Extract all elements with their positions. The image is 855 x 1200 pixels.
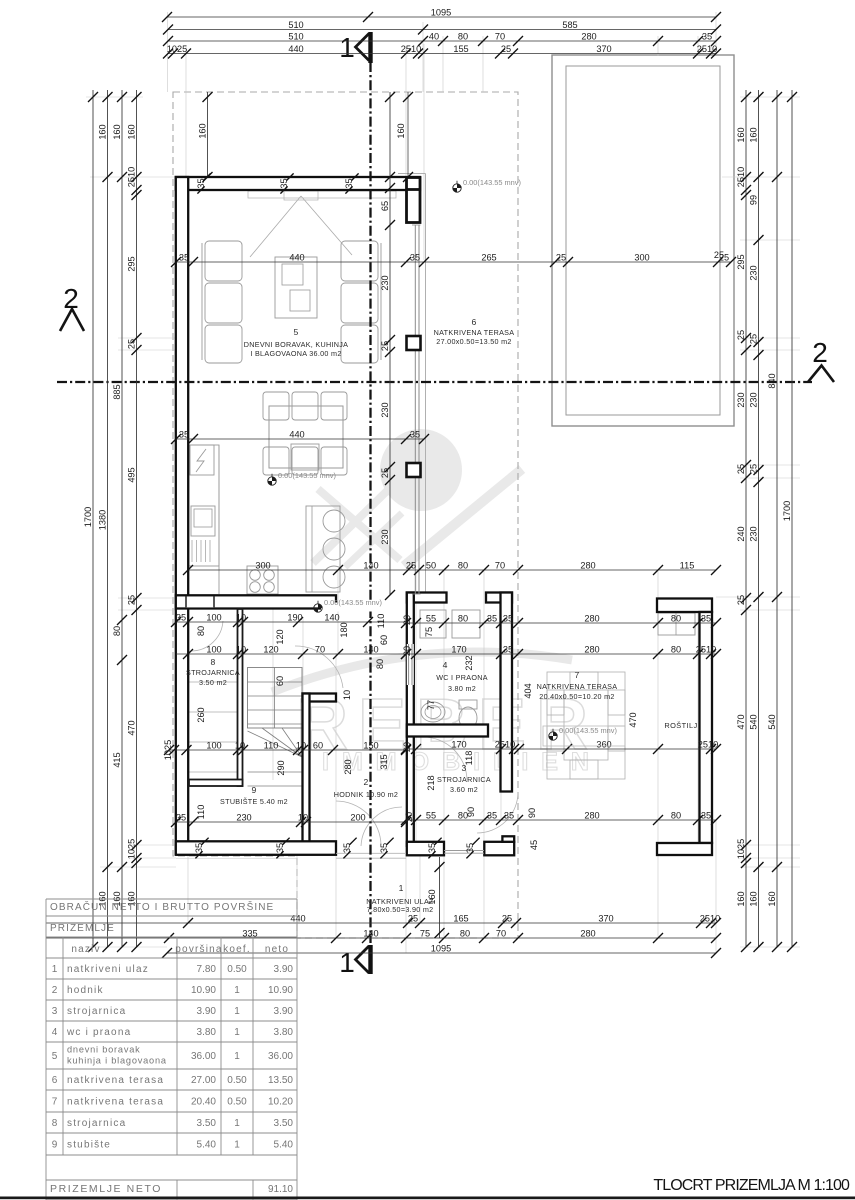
svg-text:36.00: 36.00 <box>191 1051 216 1062</box>
svg-text:77: 77 <box>426 700 436 710</box>
svg-text:80: 80 <box>458 561 468 571</box>
svg-text:3.50: 3.50 <box>274 1118 294 1129</box>
svg-text:230: 230 <box>748 392 758 407</box>
svg-text:190: 190 <box>287 613 302 623</box>
svg-text:OBRAČUN NETTO I BRUTTO POVRŠIN: OBRAČUN NETTO I BRUTTO POVRŠINE <box>50 900 274 913</box>
svg-text:90: 90 <box>527 808 537 818</box>
svg-text:27.00x0.50=13.50 m2: 27.00x0.50=13.50 m2 <box>436 337 511 346</box>
svg-text:80: 80 <box>196 626 206 636</box>
svg-text:35: 35 <box>702 32 712 42</box>
svg-text:7: 7 <box>52 1097 58 1108</box>
svg-text:35: 35 <box>179 253 189 263</box>
svg-text:35: 35 <box>503 645 513 655</box>
svg-text:55: 55 <box>426 811 436 821</box>
svg-text:110: 110 <box>264 741 279 751</box>
svg-text:1700: 1700 <box>83 507 93 527</box>
svg-text:25: 25 <box>408 914 418 924</box>
svg-text:DNEVNI BORAVAK, KUHINJA: DNEVNI BORAVAK, KUHINJA <box>244 340 348 349</box>
svg-text:25: 25 <box>380 341 390 351</box>
svg-text:370: 370 <box>598 914 613 924</box>
svg-text:1025: 1025 <box>167 44 187 54</box>
svg-text:200: 200 <box>350 813 365 823</box>
svg-text:440: 440 <box>288 44 303 54</box>
svg-text:hodnik: hodnik <box>67 985 104 996</box>
svg-text:160: 160 <box>736 127 746 142</box>
svg-text:4: 4 <box>443 660 448 670</box>
svg-text:3.80: 3.80 <box>274 1027 294 1038</box>
svg-text:370: 370 <box>596 44 611 54</box>
svg-text:120: 120 <box>263 645 278 655</box>
svg-text:160: 160 <box>126 124 136 139</box>
svg-text:280: 280 <box>581 32 596 42</box>
svg-text:25: 25 <box>126 339 136 349</box>
svg-text:3.90: 3.90 <box>274 964 294 975</box>
svg-text:dnevni boravak: dnevni boravak <box>67 1045 141 1055</box>
svg-text:2: 2 <box>52 985 58 996</box>
svg-text:10: 10 <box>296 741 306 751</box>
svg-text:230: 230 <box>736 392 746 407</box>
svg-text:280: 280 <box>580 561 595 571</box>
svg-text:1095: 1095 <box>431 944 451 954</box>
svg-text:80: 80 <box>375 659 385 669</box>
svg-text:280: 280 <box>584 614 599 624</box>
svg-text:110: 110 <box>196 805 206 820</box>
svg-text:0.50: 0.50 <box>227 1097 247 1108</box>
svg-text:415: 415 <box>112 752 122 767</box>
svg-text:natkrivena terasa: natkrivena terasa <box>67 1075 164 1086</box>
svg-text:3.80: 3.80 <box>197 1027 217 1038</box>
svg-text:35: 35 <box>487 811 497 821</box>
svg-text:120: 120 <box>275 629 285 644</box>
svg-text:290: 290 <box>276 760 286 775</box>
svg-text:6: 6 <box>52 1075 58 1086</box>
svg-text:strojarnica: strojarnica <box>67 1006 126 1017</box>
svg-text:230: 230 <box>748 526 758 541</box>
svg-text:45: 45 <box>529 840 539 850</box>
svg-text:naziv: naziv <box>71 944 100 955</box>
svg-text:1: 1 <box>399 883 404 893</box>
svg-text:površina: površina <box>175 944 222 955</box>
svg-text:404: 404 <box>523 683 533 698</box>
svg-text:91.10: 91.10 <box>268 1184 293 1195</box>
svg-text:585: 585 <box>562 20 577 30</box>
svg-text:1025: 1025 <box>126 839 136 859</box>
svg-text:80: 80 <box>671 614 681 624</box>
svg-text:840: 840 <box>767 373 777 388</box>
svg-text:90: 90 <box>466 807 476 817</box>
svg-text:25: 25 <box>748 464 758 474</box>
svg-text:35: 35 <box>487 614 497 624</box>
svg-text:170: 170 <box>451 740 466 750</box>
svg-text:80: 80 <box>112 626 122 636</box>
svg-text:55: 55 <box>426 614 436 624</box>
svg-text:80: 80 <box>460 929 470 939</box>
svg-text:25: 25 <box>406 561 416 571</box>
svg-text:koef.: koef. <box>223 944 251 955</box>
svg-text:0.50: 0.50 <box>227 1075 247 1086</box>
svg-text:295: 295 <box>126 256 136 271</box>
svg-text:NATKRIVENA TERASA: NATKRIVENA TERASA <box>537 682 618 691</box>
svg-text:20.40: 20.40 <box>191 1097 216 1108</box>
svg-text:260: 260 <box>196 707 206 722</box>
svg-text:1380: 1380 <box>97 510 107 530</box>
svg-text:20.40x0.50=10.20 m2: 20.40x0.50=10.20 m2 <box>539 692 614 701</box>
svg-text:218: 218 <box>426 775 436 790</box>
svg-text:75: 75 <box>424 627 434 637</box>
svg-text:280: 280 <box>584 645 599 655</box>
svg-text:1700: 1700 <box>782 501 792 521</box>
svg-text:25: 25 <box>380 468 390 478</box>
svg-text:STUBIŠTE 5.40 m2: STUBIŠTE 5.40 m2 <box>220 797 288 806</box>
svg-text:100: 100 <box>206 645 221 655</box>
svg-text:115: 115 <box>680 561 695 571</box>
svg-text:25: 25 <box>714 250 724 260</box>
svg-text:3.80 m2: 3.80 m2 <box>448 684 476 693</box>
svg-text:1095: 1095 <box>431 8 451 18</box>
svg-text:232: 232 <box>464 655 474 670</box>
svg-text:36.00: 36.00 <box>268 1051 293 1062</box>
svg-text:155: 155 <box>453 44 468 54</box>
svg-text:TLOCRT PRIZEMLJA M 1:100: TLOCRT PRIZEMLJA M 1:100 <box>653 1177 850 1194</box>
svg-text:10.90: 10.90 <box>191 985 216 996</box>
svg-text:3.60 m2: 3.60 m2 <box>450 785 478 794</box>
svg-text:35: 35 <box>701 811 711 821</box>
svg-text:35: 35 <box>176 613 186 623</box>
svg-text:540: 540 <box>748 714 758 729</box>
svg-text:70: 70 <box>496 929 506 939</box>
svg-text:440: 440 <box>289 430 304 440</box>
svg-text:160: 160 <box>748 891 758 906</box>
svg-text:280: 280 <box>580 929 595 939</box>
svg-text:2510: 2510 <box>126 167 136 187</box>
svg-text:300: 300 <box>634 253 649 263</box>
svg-text:470: 470 <box>628 712 638 727</box>
svg-text:25: 25 <box>736 464 746 474</box>
svg-text:80: 80 <box>671 811 681 821</box>
svg-text:3.90: 3.90 <box>197 1006 217 1017</box>
svg-text:170: 170 <box>451 645 466 655</box>
svg-text:3.50: 3.50 <box>197 1118 217 1129</box>
svg-text:315: 315 <box>379 754 389 769</box>
svg-text:35: 35 <box>504 811 514 821</box>
svg-text:27.00: 27.00 <box>191 1075 216 1086</box>
svg-text:99: 99 <box>748 195 758 205</box>
svg-text:PRIZEMLJE: PRIZEMLJE <box>50 923 115 934</box>
svg-text:150: 150 <box>363 741 378 751</box>
svg-text:160: 160 <box>97 124 107 139</box>
svg-text:0.50: 0.50 <box>227 964 247 975</box>
svg-text:540: 540 <box>767 714 777 729</box>
svg-text:60: 60 <box>379 635 389 645</box>
svg-text:10: 10 <box>236 613 246 623</box>
svg-text:240: 240 <box>736 526 746 541</box>
svg-text:440: 440 <box>289 253 304 263</box>
svg-text:25: 25 <box>126 595 136 605</box>
svg-text:stubište: stubište <box>67 1140 111 1151</box>
svg-text:140: 140 <box>363 561 378 571</box>
svg-text:180: 180 <box>339 622 349 637</box>
svg-text:STROJARNICA: STROJARNICA <box>186 668 240 677</box>
svg-text:35: 35 <box>176 813 186 823</box>
svg-text:1: 1 <box>234 985 240 996</box>
svg-text:165: 165 <box>453 914 468 924</box>
svg-text:0.00(143.55 mnv): 0.00(143.55 mnv) <box>559 726 617 735</box>
svg-text:2510: 2510 <box>696 645 716 655</box>
svg-text:160: 160 <box>736 891 746 906</box>
svg-text:160: 160 <box>396 123 406 138</box>
svg-text:70: 70 <box>495 561 505 571</box>
svg-text:80: 80 <box>671 645 681 655</box>
svg-text:35: 35 <box>410 253 420 263</box>
svg-text:510: 510 <box>288 20 303 30</box>
svg-text:3: 3 <box>52 1006 58 1017</box>
svg-text:35: 35 <box>701 614 711 624</box>
svg-text:280: 280 <box>343 759 353 774</box>
svg-text:10: 10 <box>342 690 352 700</box>
svg-text:wc i praona: wc i praona <box>66 1027 131 1038</box>
svg-text:60: 60 <box>313 741 323 751</box>
svg-text:60: 60 <box>275 676 285 686</box>
svg-text:4: 4 <box>52 1027 58 1038</box>
svg-text:75: 75 <box>420 929 430 939</box>
svg-text:160: 160 <box>197 123 207 138</box>
svg-text:1: 1 <box>234 1118 240 1129</box>
svg-text:20: 20 <box>404 812 414 822</box>
svg-text:1025: 1025 <box>163 740 173 760</box>
svg-text:3.50 m2: 3.50 m2 <box>199 678 227 687</box>
svg-text:kuhinja i blagovaona: kuhinja i blagovaona <box>67 1056 167 1066</box>
svg-text:natkriveni ulaz: natkriveni ulaz <box>67 964 149 975</box>
svg-text:295: 295 <box>736 254 746 269</box>
svg-text:2: 2 <box>812 337 828 368</box>
svg-text:7: 7 <box>574 670 579 680</box>
svg-text:265: 265 <box>481 253 496 263</box>
svg-text:2510: 2510 <box>736 167 746 187</box>
svg-text:140: 140 <box>324 613 339 623</box>
svg-text:10.20: 10.20 <box>268 1097 293 1108</box>
svg-text:230: 230 <box>380 275 390 290</box>
svg-text:9: 9 <box>251 785 256 795</box>
svg-text:510: 510 <box>288 32 303 42</box>
svg-text:1: 1 <box>339 947 355 978</box>
svg-text:300: 300 <box>255 561 270 571</box>
svg-text:50: 50 <box>426 561 436 571</box>
svg-text:10: 10 <box>236 645 246 655</box>
svg-text:I BLAGOVAONA 36.00 m2: I BLAGOVAONA 36.00 m2 <box>250 349 341 358</box>
svg-text:230: 230 <box>236 813 251 823</box>
svg-text:5: 5 <box>52 1051 58 1062</box>
svg-text:10.90: 10.90 <box>268 985 293 996</box>
svg-text:80: 80 <box>458 614 468 624</box>
svg-text:10: 10 <box>235 741 245 751</box>
svg-text:2510: 2510 <box>697 44 717 54</box>
svg-text:1: 1 <box>52 964 58 975</box>
svg-text:2510: 2510 <box>700 914 720 924</box>
svg-text:360: 360 <box>596 740 611 750</box>
svg-text:160: 160 <box>112 124 122 139</box>
svg-text:natkrivena terasa: natkrivena terasa <box>67 1097 164 1108</box>
svg-text:STROJARNICA: STROJARNICA <box>437 775 491 784</box>
svg-text:20: 20 <box>402 646 412 656</box>
svg-text:160: 160 <box>767 891 777 906</box>
svg-text:8: 8 <box>210 657 215 667</box>
svg-text:470: 470 <box>736 714 746 729</box>
svg-text:5: 5 <box>293 327 298 337</box>
svg-text:65: 65 <box>380 201 390 211</box>
svg-text:NATKRIVENA TERASA: NATKRIVENA TERASA <box>434 328 515 337</box>
svg-text:strojarnica: strojarnica <box>67 1118 126 1129</box>
svg-text:35: 35 <box>179 430 189 440</box>
svg-text:40: 40 <box>429 32 439 42</box>
svg-text:5.40: 5.40 <box>197 1140 217 1151</box>
svg-text:6: 6 <box>471 317 476 327</box>
svg-text:440: 440 <box>290 914 305 924</box>
svg-text:0.00(143.55 mnv): 0.00(143.55 mnv) <box>324 598 382 607</box>
svg-text:1: 1 <box>234 1051 240 1062</box>
svg-text:230: 230 <box>380 529 390 544</box>
svg-text:470: 470 <box>126 720 136 735</box>
svg-text:2510: 2510 <box>401 44 421 54</box>
svg-text:25: 25 <box>556 253 566 263</box>
svg-text:1025: 1025 <box>736 839 746 859</box>
svg-text:230: 230 <box>748 265 758 280</box>
svg-text:HODNIK 10.90 m2: HODNIK 10.90 m2 <box>334 790 398 799</box>
svg-text:140: 140 <box>363 929 378 939</box>
svg-text:280: 280 <box>584 811 599 821</box>
svg-text:35: 35 <box>410 430 420 440</box>
svg-text:20: 20 <box>402 615 412 625</box>
svg-text:25: 25 <box>502 914 512 924</box>
svg-text:7.80: 7.80 <box>197 964 217 975</box>
svg-text:3.90: 3.90 <box>274 1006 294 1017</box>
svg-text:7.80x0.50=3.90 m2: 7.80x0.50=3.90 m2 <box>367 905 434 914</box>
svg-text:1: 1 <box>339 32 355 63</box>
svg-text:1: 1 <box>234 1006 240 1017</box>
svg-text:neto: neto <box>265 944 289 955</box>
svg-text:70: 70 <box>315 645 325 655</box>
svg-text:25: 25 <box>501 44 511 54</box>
svg-text:ROŠTILJ: ROŠTILJ <box>664 721 697 730</box>
svg-text:10: 10 <box>298 813 308 823</box>
svg-text:WC I PRAONA: WC I PRAONA <box>436 673 488 682</box>
svg-text:230: 230 <box>380 402 390 417</box>
svg-text:35: 35 <box>503 614 513 624</box>
svg-text:1: 1 <box>234 1140 240 1151</box>
svg-text:2510: 2510 <box>495 740 515 750</box>
svg-text:3: 3 <box>461 763 466 773</box>
svg-text:25: 25 <box>748 334 758 344</box>
svg-text:2510: 2510 <box>698 740 718 750</box>
svg-text:0.00(143.55 mnv): 0.00(143.55 mnv) <box>463 178 521 187</box>
svg-text:25: 25 <box>736 595 746 605</box>
svg-text:70: 70 <box>495 32 505 42</box>
svg-text:0.00(143.55 mnv): 0.00(143.55 mnv) <box>278 471 336 480</box>
svg-text:140: 140 <box>363 645 378 655</box>
svg-text:25: 25 <box>736 330 746 340</box>
svg-text:2: 2 <box>363 777 368 787</box>
svg-text:885: 885 <box>112 384 122 399</box>
svg-text:110: 110 <box>376 614 386 629</box>
svg-text:8: 8 <box>52 1118 58 1129</box>
svg-text:495: 495 <box>126 467 136 482</box>
svg-text:PRIZEMLJE NETO: PRIZEMLJE NETO <box>50 1183 162 1195</box>
svg-text:100: 100 <box>206 741 221 751</box>
svg-text:80: 80 <box>458 32 468 42</box>
svg-text:5.40: 5.40 <box>274 1140 294 1151</box>
svg-text:160: 160 <box>748 127 758 142</box>
svg-text:9: 9 <box>52 1140 58 1151</box>
svg-text:13.50: 13.50 <box>268 1075 293 1086</box>
svg-text:100: 100 <box>206 613 221 623</box>
svg-text:1: 1 <box>234 1027 240 1038</box>
